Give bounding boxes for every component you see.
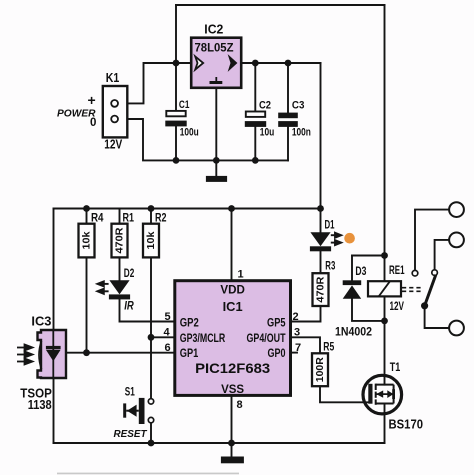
svg-text:100n: 100n: [292, 127, 311, 139]
svg-text:S1: S1: [125, 387, 135, 399]
svg-text:10u: 10u: [260, 127, 275, 139]
wire relay contact common to bottom terminal: [425, 306, 450, 328]
T1 body arrow: [376, 390, 383, 397]
ground symbol upper: [206, 160, 227, 182]
wire C3 top stub: [287, 63, 289, 113]
wire D1 anode stub: [320, 209, 322, 233]
svg-text:R3: R3: [325, 261, 335, 273]
svg-text:GP1: GP1: [180, 348, 199, 360]
resistor R5: [312, 353, 328, 386]
wire R4 bottom stub: [86, 257, 88, 352]
svg-text:RE1: RE1: [389, 265, 405, 277]
IC3 incoming light arrows: [17, 345, 33, 365]
wire C3 bottom stub: [287, 127, 289, 160]
wire R5 to T1 gate: [320, 386, 369, 402]
orange indicator dot: [344, 233, 355, 244]
svg-text:IR: IR: [124, 301, 134, 313]
svg-text:0: 0: [90, 117, 96, 129]
capacitor C1: [165, 111, 186, 127]
IC2 internal ground pin: [215, 77, 217, 81]
T1 body diode: [387, 390, 393, 398]
resistor R4: [79, 224, 95, 258]
wire R1 to D2 anode: [119, 257, 121, 280]
wire IC2 ground pin: [215, 88, 217, 161]
svg-text:7: 7: [295, 342, 301, 354]
svg-text:12V: 12V: [390, 301, 405, 313]
svg-text:GP3/MCLR: GP3/MCLR: [180, 333, 226, 345]
wire K1 minus pin to ground rail: [118, 119, 289, 160]
svg-text:IC2: IC2: [204, 23, 223, 37]
wire top 12V rail: [176, 4, 385, 6]
svg-text:3: 3: [294, 326, 300, 338]
wire D3 cathode stub: [351, 256, 353, 281]
svg-text:1: 1: [238, 269, 244, 281]
resistor R1: [112, 224, 128, 258]
svg-text:C1: C1: [179, 99, 190, 111]
T1 drain tap: [376, 384, 394, 386]
svg-text:GP4/OUT: GP4/OUT: [247, 333, 286, 345]
svg-text:5: 5: [165, 311, 171, 323]
svg-text:D3: D3: [355, 266, 366, 278]
svg-text:8: 8: [237, 399, 243, 411]
wire C1 bottom stub: [175, 126, 177, 160]
svg-text:GP5: GP5: [267, 317, 286, 329]
wire relay coil bottom stub: [384, 296, 386, 321]
svg-text:RESET: RESET: [114, 428, 148, 440]
T1 body diode branch: [393, 385, 395, 404]
wire R4 top stub: [86, 209, 88, 224]
svg-text:PIC12F683: PIC12F683: [195, 360, 270, 376]
svg-text:GP0: GP0: [268, 348, 286, 360]
wire R3 to GP5 pin 2: [291, 306, 321, 322]
svg-text:12V: 12V: [104, 138, 123, 152]
svg-text:BS170: BS170: [389, 416, 424, 431]
wire GP4/OUT pin 3 to R5: [291, 337, 321, 353]
LED D1: [310, 232, 341, 251]
svg-text:VSS: VSS: [221, 384, 244, 396]
capacitor C2: [245, 112, 266, 127]
wire IC3 output to GP1 pin 6: [66, 352, 175, 354]
IC2 output arrow: [229, 56, 237, 71]
wire VDD pin 1 stub: [231, 209, 233, 281]
svg-text:R4: R4: [91, 213, 104, 225]
wire relay contact top terminal: [415, 210, 449, 271]
svg-text:VDD: VDD: [220, 285, 245, 297]
relay contacts: [412, 202, 464, 335]
wire IC2 output line: [241, 62, 320, 64]
svg-text:10k: 10k: [81, 231, 93, 249]
wire MCLR node down to S1: [150, 337, 152, 398]
svg-text:IC1: IC1: [223, 300, 243, 314]
pushbutton S1: [123, 398, 154, 424]
MOSFET T1: [363, 375, 402, 414]
svg-text:C3: C3: [292, 100, 305, 112]
wire 5V drop to IC3 supply: [53, 209, 55, 331]
svg-text:470R: 470R: [114, 227, 126, 253]
resistor R2: [143, 224, 159, 258]
wire bottom ground rail: [54, 442, 385, 444]
regulator IC2: [191, 38, 241, 88]
svg-text:100R: 100R: [314, 357, 326, 382]
microcontroller IC1: [175, 281, 291, 396]
wire D1 cathode to R3: [320, 251, 322, 274]
LED D2: [97, 280, 130, 299]
svg-text:1N4002: 1N4002: [335, 325, 372, 339]
relay coil RE1: [368, 281, 422, 296]
svg-text:78L05Z: 78L05Z: [195, 41, 234, 55]
ground symbol lower: [221, 443, 244, 463]
svg-text:IC3: IC3: [31, 315, 51, 329]
wire K1 plus pin to regulator input node: [118, 63, 192, 103]
wire 5V rail: [54, 208, 321, 210]
wire S1 to ground rail: [150, 423, 152, 443]
wire MCLR node to pin 4: [151, 336, 175, 338]
wire 12V node to D3 cathode branch: [352, 255, 385, 257]
wire D3 anode to coil bottom node: [352, 299, 385, 321]
bottom edge artifact: [57, 473, 239, 475]
IC3 lens arc: [39, 341, 42, 369]
svg-text:K1: K1: [106, 71, 120, 85]
wire C2 bottom stub: [254, 127, 256, 160]
capacitor C3: [278, 113, 298, 127]
svg-text:6: 6: [165, 342, 171, 354]
svg-text:100u: 100u: [180, 127, 199, 139]
wire R2 bottom to MCLR node: [150, 257, 152, 337]
svg-text:10k: 10k: [145, 231, 157, 249]
wire 12V drop to relay node: [384, 5, 386, 256]
IC3 internal diode: [52, 330, 54, 378]
wire relay coil top stub: [384, 256, 386, 282]
wire relay contact middle terminal: [435, 240, 450, 270]
connector K1: [103, 86, 128, 137]
IR receiver IC3: [17, 330, 66, 378]
svg-text:D2: D2: [124, 268, 135, 280]
wire coil node to T1 drain: [384, 321, 386, 385]
svg-text:R2: R2: [155, 213, 167, 225]
svg-text:2: 2: [293, 311, 299, 323]
svg-text:C2: C2: [259, 100, 271, 112]
svg-text:D1: D1: [325, 220, 335, 232]
wire T1 source to ground rail: [384, 404, 386, 444]
wire 12V riser from K1 node to top rail: [175, 5, 177, 63]
svg-text:1138: 1138: [28, 398, 52, 412]
relay actuation dashed link: [402, 288, 422, 292]
IC2 input arrow: [195, 56, 203, 69]
wire R2 top stub: [150, 209, 152, 224]
svg-text:T1: T1: [390, 362, 401, 374]
svg-text:470R: 470R: [315, 276, 327, 302]
wire C2 top stub: [254, 63, 256, 112]
T1 gate bar: [368, 384, 372, 404]
wire IC3 ground stub: [53, 378, 55, 443]
svg-text:GP2: GP2: [180, 317, 199, 329]
wire GP0 pin 7 stub: [291, 352, 298, 354]
wire R1 top stub: [119, 209, 121, 224]
svg-text:R5: R5: [323, 342, 334, 354]
wire D2 cathode to GP2 pin 5: [120, 299, 175, 321]
svg-text:+: +: [88, 92, 96, 108]
resistor R3: [313, 273, 329, 306]
T1 source tap: [376, 403, 394, 405]
svg-text:4: 4: [164, 326, 171, 338]
diode D3: [343, 280, 362, 298]
wire VSS pin 8 stub: [231, 395, 233, 443]
wire 5V drop from regulator output: [320, 63, 322, 209]
T1 channel segments: [376, 384, 394, 405]
svg-text:R1: R1: [123, 213, 135, 225]
relay lever: [425, 275, 436, 306]
wire C1 top stub: [175, 63, 177, 111]
